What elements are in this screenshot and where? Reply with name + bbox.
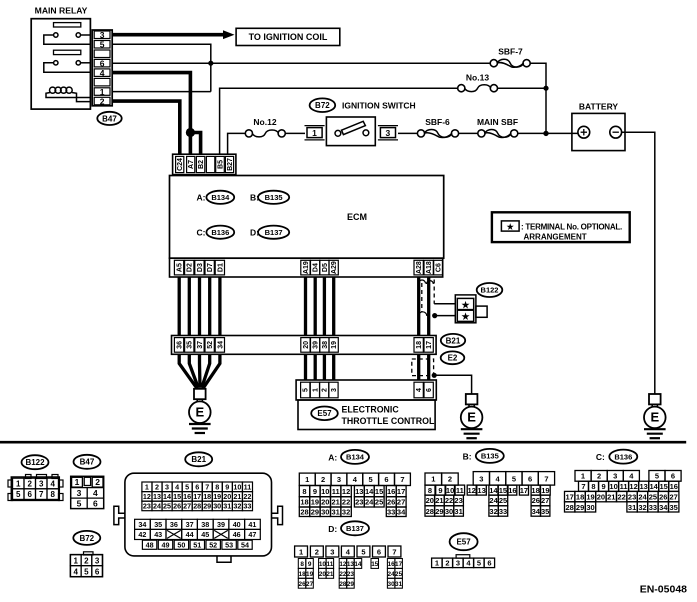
svg-text:15: 15 (173, 492, 181, 501)
svg-text:6: 6 (195, 483, 199, 492)
svg-text:31: 31 (395, 581, 403, 588)
svg-text:3: 3 (77, 488, 82, 498)
wire ECM to B21 pin 34 (thick) (218, 277, 221, 336)
svg-text:36: 36 (177, 341, 184, 349)
svg-text:27: 27 (183, 502, 191, 511)
svg-text:3: 3 (330, 547, 334, 556)
junction dot pin5/pin6 net (208, 61, 213, 66)
svg-text:52: 52 (207, 341, 214, 349)
connector B21 top pin grid (142, 482, 253, 511)
svg-text:A18: A18 (426, 261, 433, 274)
svg-text:5: 5 (84, 567, 89, 576)
legend: terminal optional arrangement (492, 212, 630, 242)
svg-text:10: 10 (609, 482, 617, 491)
svg-text:25: 25 (395, 571, 403, 578)
wire ECM to B21 pin 35 (thick) (188, 277, 191, 336)
wire ECM to B21 pin 20 (thick) (304, 277, 307, 336)
svg-text:6: 6 (671, 472, 675, 481)
svg-text:B135: B135 (481, 452, 499, 461)
svg-text:18: 18 (416, 341, 423, 349)
svg-text:44: 44 (186, 530, 194, 539)
svg-text:14: 14 (650, 482, 659, 491)
svg-text:2: 2 (84, 556, 89, 565)
wire to B122 star terminal 2 (435, 315, 456, 317)
svg-text:E57: E57 (317, 409, 332, 418)
svg-text:8: 8 (428, 486, 432, 495)
svg-text:10: 10 (233, 483, 241, 492)
svg-text:32: 32 (233, 502, 241, 511)
connector row B21 pins (172, 336, 437, 355)
svg-text:3: 3 (337, 475, 341, 484)
relay switch 2 (44, 61, 91, 73)
wire to B122 star terminal 1 (434, 303, 455, 305)
relay coil (46, 87, 90, 102)
svg-text:C:: C: (596, 452, 605, 462)
svg-text:ARRANGEMENT: ARRANGEMENT (524, 232, 587, 241)
separator line (0, 441, 686, 444)
svg-text:1: 1 (312, 128, 317, 138)
svg-text:15: 15 (660, 482, 668, 491)
junction dot to star terminal 2 (432, 313, 437, 318)
svg-text:3: 3 (456, 559, 460, 568)
svg-text:15: 15 (375, 487, 383, 496)
svg-text:23: 23 (628, 493, 636, 502)
svg-text:5: 5 (361, 547, 365, 556)
svg-text:45: 45 (201, 530, 209, 539)
ground symbol E right (644, 394, 666, 438)
relay contact bar 1 (54, 23, 81, 27)
svg-text:6: 6 (93, 498, 98, 508)
svg-text:E: E (195, 405, 204, 420)
svg-text:B72: B72 (315, 101, 330, 110)
svg-text:32: 32 (489, 507, 497, 516)
svg-text:B122: B122 (481, 286, 499, 295)
svg-text:A7: A7 (188, 160, 195, 169)
svg-text:49: 49 (162, 540, 170, 549)
svg-text:5: 5 (655, 472, 659, 481)
svg-text:7: 7 (392, 547, 396, 556)
svg-text:38: 38 (201, 520, 209, 529)
svg-text:2: 2 (445, 559, 449, 568)
svg-text:17: 17 (520, 486, 528, 495)
svg-text:1: 1 (16, 480, 21, 489)
svg-text:10: 10 (446, 486, 454, 495)
svg-text:30: 30 (321, 508, 329, 517)
svg-text:34: 34 (397, 508, 406, 517)
svg-text:21: 21 (233, 492, 241, 501)
ECM bottom connector strip (170, 258, 443, 277)
svg-text:27: 27 (397, 498, 405, 507)
connector B135 designator oval (layout) (476, 449, 504, 463)
svg-text:18: 18 (299, 571, 307, 578)
svg-text:5: 5 (369, 475, 373, 484)
wire relay pin1 (112, 91, 211, 93)
svg-text:B47: B47 (80, 458, 95, 467)
svg-text:19: 19 (311, 498, 319, 507)
svg-text:No.12: No.12 (253, 117, 276, 127)
svg-text:29: 29 (203, 502, 211, 511)
svg-text:B134: B134 (346, 453, 365, 462)
svg-text:17: 17 (193, 492, 201, 501)
svg-text:23: 23 (143, 502, 151, 511)
svg-text:13: 13 (477, 486, 485, 495)
connector B136 pin layout (565, 471, 682, 513)
wire B5 to fuse No.13 (220, 88, 458, 154)
svg-text:B21: B21 (446, 336, 461, 345)
svg-text:26: 26 (387, 498, 395, 507)
wire ECM to B21 pin 39 (thick) (314, 277, 317, 336)
svg-text:2: 2 (448, 475, 452, 484)
svg-text:35: 35 (154, 520, 162, 529)
svg-text:4: 4 (93, 488, 98, 498)
svg-text:5: 5 (100, 39, 105, 49)
svg-text:C:: C: (197, 228, 206, 238)
svg-text:D7: D7 (207, 263, 214, 272)
svg-text:33: 33 (499, 507, 507, 516)
wire ECM to B21 pin 38 (thick) (323, 277, 326, 336)
svg-text:4: 4 (73, 567, 78, 576)
svg-text:SBF-7: SBF-7 (498, 47, 523, 57)
svg-text:10: 10 (319, 561, 327, 568)
svg-text:B136: B136 (614, 452, 632, 461)
svg-text:23: 23 (355, 498, 363, 507)
svg-text:2: 2 (100, 96, 105, 106)
svg-text:2: 2 (95, 477, 100, 487)
svg-text:21: 21 (332, 498, 340, 507)
svg-text:A28: A28 (416, 261, 423, 274)
svg-text:29: 29 (576, 503, 584, 512)
svg-text:47: 47 (248, 530, 256, 539)
svg-text:33: 33 (243, 502, 251, 511)
wire B21 pin to ground bundle 5 (thick) (203, 354, 220, 388)
svg-text:35: 35 (187, 341, 194, 349)
svg-text:B2: B2 (198, 160, 205, 169)
svg-text:21: 21 (435, 496, 443, 505)
svg-text:21: 21 (326, 571, 334, 578)
svg-text:7: 7 (544, 475, 548, 484)
svg-text:B122: B122 (25, 458, 45, 467)
svg-text:18: 18 (576, 493, 584, 502)
ground symbol E middle (461, 394, 483, 438)
ignition switch pin 1 (305, 126, 325, 140)
svg-text:20: 20 (303, 341, 310, 349)
svg-text:B21: B21 (191, 455, 206, 464)
connector strip B47 pins (92, 30, 112, 106)
svg-text:24: 24 (638, 493, 647, 502)
wire B21 to throttle pin 3 (thick) (332, 354, 335, 380)
svg-text:15: 15 (499, 486, 507, 495)
svg-text:19: 19 (331, 341, 338, 349)
svg-text:54: 54 (241, 540, 249, 549)
svg-text:27: 27 (670, 493, 678, 502)
svg-text:26: 26 (299, 581, 307, 588)
wire No.12 to ignition switch pin 1 (285, 132, 305, 134)
svg-text:5: 5 (303, 388, 310, 392)
svg-text:28: 28 (300, 508, 308, 517)
svg-text:B27: B27 (227, 158, 234, 171)
svg-text:16: 16 (508, 486, 516, 495)
svg-text:14: 14 (163, 492, 171, 501)
connector E57 designator oval (layout) (450, 533, 478, 550)
connector B134 pin layout (299, 473, 410, 516)
svg-text:36: 36 (170, 520, 178, 529)
svg-text:34: 34 (217, 341, 224, 349)
connector ref A: B134 (197, 191, 235, 204)
svg-text:5: 5 (77, 498, 82, 508)
svg-text:TO IGNITION COIL: TO IGNITION COIL (249, 32, 328, 42)
svg-text:7: 7 (205, 483, 209, 492)
svg-text:31: 31 (454, 507, 462, 516)
wire ECM to B21 pin 36 (thick) (178, 277, 181, 336)
svg-text:18: 18 (203, 492, 211, 501)
connector B137 pin layout (295, 546, 403, 588)
junction dot battery node (543, 131, 548, 136)
svg-text:6: 6 (384, 475, 388, 484)
connector B47 pin layout (71, 476, 104, 508)
svg-text:2: 2 (321, 475, 325, 484)
svg-text:19: 19 (213, 492, 221, 501)
connector B21 bottom pin row (142, 540, 252, 549)
svg-text:19: 19 (306, 571, 314, 578)
svg-text:11: 11 (620, 482, 628, 491)
svg-text:28: 28 (426, 507, 434, 516)
wire junction down to main SBF node (545, 88, 547, 133)
connector E2 designator oval (441, 351, 465, 364)
svg-text:7: 7 (400, 475, 404, 484)
svg-text:16: 16 (388, 561, 396, 568)
svg-text:46: 46 (233, 530, 241, 539)
svg-text:22: 22 (243, 492, 251, 501)
svg-text:9: 9 (308, 561, 312, 568)
svg-text:40: 40 (233, 520, 241, 529)
wire SBF-7 to junction (530, 63, 546, 88)
svg-text:27: 27 (306, 581, 314, 588)
ignition switch pin 3 (378, 126, 398, 140)
svg-text:28: 28 (566, 503, 574, 512)
svg-text:17: 17 (397, 487, 405, 496)
svg-text:20: 20 (321, 498, 329, 507)
main relay box (31, 19, 90, 109)
svg-text:20: 20 (597, 493, 605, 502)
svg-text:1: 1 (431, 475, 435, 484)
svg-text:32: 32 (342, 508, 350, 517)
connector B47 designator oval (layout) (74, 455, 101, 469)
svg-text:23: 23 (347, 571, 355, 578)
svg-text:E57: E57 (456, 538, 471, 547)
svg-text:31: 31 (332, 508, 340, 517)
connector B122 pin layout (8, 475, 63, 501)
svg-text:34: 34 (659, 503, 668, 512)
svg-text:26: 26 (659, 493, 667, 502)
svg-text:37: 37 (186, 520, 194, 529)
svg-text:25: 25 (499, 496, 507, 505)
svg-text:2: 2 (315, 547, 319, 556)
wire battery minus to right ground (622, 132, 655, 394)
svg-text:1: 1 (145, 483, 149, 492)
svg-text:21: 21 (607, 493, 615, 502)
svg-text:9: 9 (602, 482, 606, 491)
svg-text:19: 19 (586, 493, 594, 502)
svg-text:C24: C24 (177, 158, 184, 171)
svg-text:A:: A: (328, 452, 337, 462)
svg-text:20: 20 (319, 571, 327, 578)
wire relay pin3 to ignition coil (thick) (112, 33, 224, 37)
wire ECM to B21 pin 37 (thick) (198, 277, 201, 336)
svg-text:THROTTLE CONTROL: THROTTLE CONTROL (342, 416, 435, 426)
svg-text:B136: B136 (211, 228, 229, 237)
fuse SBF-6 (417, 130, 458, 138)
svg-text:50: 50 (177, 540, 185, 549)
svg-text:1: 1 (312, 388, 319, 392)
svg-text:25: 25 (163, 502, 171, 511)
wire relay pin5 (112, 44, 211, 91)
svg-text:25: 25 (649, 493, 657, 502)
svg-text:3: 3 (386, 128, 391, 138)
wire blob to A7 (thick) (189, 133, 193, 155)
svg-text:6: 6 (95, 567, 100, 576)
wire ECM to B21 pin 52 (thick) (208, 277, 211, 336)
junction dot E2 ground (432, 373, 437, 378)
svg-text:8: 8 (591, 482, 595, 491)
connector B137 designator oval (layout) (341, 521, 369, 535)
svg-text:16: 16 (183, 492, 191, 501)
svg-text:9: 9 (438, 486, 442, 495)
svg-text:5: 5 (16, 490, 21, 499)
connector B21 middle pin grid (135, 519, 261, 539)
dashed E2 optional box (412, 359, 434, 376)
svg-text:1: 1 (75, 477, 80, 487)
TO IGNITION COIL box (236, 28, 340, 45)
svg-text:29: 29 (311, 508, 319, 517)
svg-text:31: 31 (223, 502, 231, 511)
svg-text:53: 53 (225, 540, 233, 549)
battery box (572, 113, 625, 150)
svg-text:16: 16 (387, 487, 395, 496)
svg-text:12: 12 (143, 492, 151, 501)
wire No.13 to junction (498, 87, 547, 89)
fuse No.12 (245, 130, 285, 137)
svg-text:11: 11 (327, 561, 334, 568)
svg-text:6: 6 (377, 547, 381, 556)
connector B134 designator oval (layout) (341, 450, 369, 464)
svg-text:35: 35 (670, 503, 678, 512)
svg-text:33: 33 (387, 508, 395, 517)
connector B122 designator oval (477, 283, 503, 297)
wire MAIN SBF to battery plus (518, 132, 578, 134)
svg-text:★: ★ (461, 300, 470, 310)
svg-text:D1: D1 (217, 263, 224, 272)
wire B21 pin18 to throttle pin4 (thick) (417, 354, 420, 380)
svg-text:26: 26 (532, 496, 540, 505)
svg-text:13: 13 (355, 487, 363, 496)
connector row E57 pins (296, 380, 436, 400)
svg-text:35: 35 (541, 507, 549, 516)
svg-text:1: 1 (581, 472, 585, 481)
svg-text:MAIN SBF: MAIN SBF (477, 117, 518, 127)
connector B135 pin layout (425, 472, 555, 517)
svg-text:30: 30 (586, 503, 594, 512)
connector B47 designator oval (97, 112, 121, 125)
svg-text:12: 12 (339, 561, 347, 568)
wire relay pin2 to C24 (thick) (112, 101, 180, 154)
wire ECM to B21 pin 17 (thick) (427, 277, 430, 336)
svg-text:8: 8 (300, 561, 304, 568)
svg-text:4: 4 (100, 68, 105, 78)
wire B21 pin to ground bundle 4 (thick) (202, 354, 210, 388)
junction dot No.13/SBF-7 (543, 86, 548, 91)
svg-text:37: 37 (197, 341, 204, 349)
svg-text:30: 30 (445, 507, 453, 516)
svg-text:14: 14 (365, 487, 374, 496)
ignition switch designator oval B72 (310, 98, 336, 112)
connector B21 designator oval (441, 334, 465, 347)
svg-text:7: 7 (39, 490, 44, 499)
dashed optional wire from C6 (419, 280, 435, 317)
wire blob to B2 (thick) (190, 133, 200, 155)
svg-text:5: 5 (477, 559, 481, 568)
svg-text:: TERMINAL No. OPTIONAL.: : TERMINAL No. OPTIONAL. (521, 222, 622, 231)
wire B21 to throttle pin 1 (thick) (314, 354, 317, 380)
connector ref B: B135 (250, 191, 289, 204)
svg-text:B47: B47 (102, 114, 117, 123)
connector E57 pin layout (432, 555, 495, 568)
svg-text:43: 43 (154, 530, 162, 539)
svg-text:3: 3 (100, 30, 105, 40)
svg-text:4: 4 (175, 483, 179, 492)
fuse No.13 (458, 85, 498, 92)
wire relay pin6 to fuse SBF-7 (112, 62, 490, 64)
wire B21 pin17 to throttle pin6 (thick) (427, 354, 430, 380)
svg-text:D5: D5 (322, 263, 329, 272)
fuse MAIN SBF (478, 130, 518, 138)
connector B72 designator oval (layout) (73, 531, 100, 545)
svg-text:28: 28 (339, 581, 347, 588)
svg-text:3: 3 (95, 556, 100, 565)
ECM box (170, 176, 444, 259)
svg-text:29: 29 (347, 581, 355, 588)
connector B122 plug with star terminals (455, 295, 487, 323)
connector B136 designator oval (layout) (609, 450, 637, 464)
svg-text:22: 22 (339, 571, 347, 578)
svg-text:3: 3 (331, 388, 338, 392)
svg-text:2: 2 (155, 483, 159, 492)
svg-text:3: 3 (479, 475, 483, 484)
svg-text:5: 5 (512, 475, 516, 484)
electronic throttle control box (298, 400, 435, 430)
svg-text:ECM: ECM (347, 212, 367, 222)
svg-text:24: 24 (489, 496, 498, 505)
svg-text:34: 34 (138, 520, 146, 529)
connector ref D: B137 (250, 226, 289, 239)
svg-text:9: 9 (313, 487, 317, 496)
ECM top connector strip (173, 154, 236, 174)
svg-text:★: ★ (461, 312, 470, 322)
svg-text:51: 51 (193, 540, 201, 549)
svg-text:22: 22 (342, 498, 350, 507)
wire B21 pin to ground bundle 2 (thick) (189, 354, 198, 388)
svg-text:8: 8 (50, 490, 55, 499)
svg-text:23: 23 (454, 496, 462, 505)
svg-text:6: 6 (426, 388, 433, 392)
svg-text:18: 18 (531, 486, 539, 495)
svg-text:14: 14 (354, 561, 362, 568)
svg-text:1: 1 (435, 559, 439, 568)
svg-text:A5: A5 (177, 263, 184, 272)
svg-text:EN-05048: EN-05048 (640, 584, 687, 596)
svg-text:MAIN RELAY: MAIN RELAY (35, 6, 88, 16)
svg-text:52: 52 (209, 540, 217, 549)
svg-text:4: 4 (50, 480, 55, 489)
